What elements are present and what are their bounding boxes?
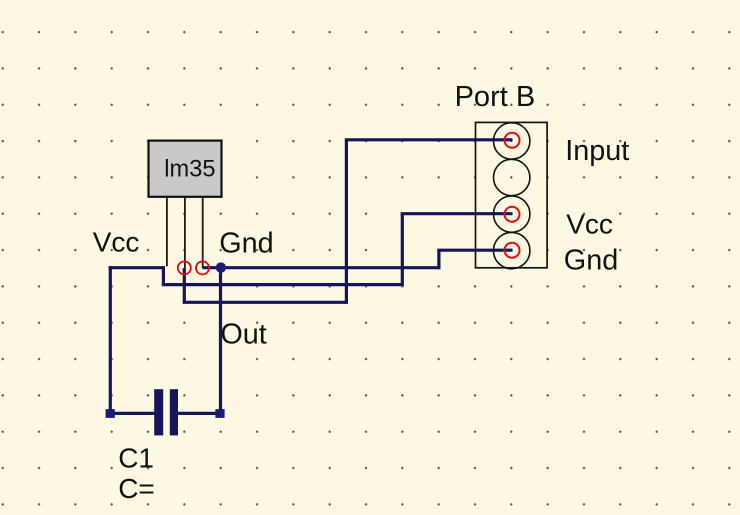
wire: horizontal from capacitor C1 right plate	[178, 412, 221, 415]
label: Vcc (left net)	[93, 227, 140, 258]
wire: Vcc net, long horizontal run y=284.6	[162, 283, 402, 286]
unconnected pin marker, pin 2	[178, 261, 191, 274]
label: Port B	[455, 81, 536, 113]
Port B hole 1 (Input)	[494, 123, 530, 159]
wire: Vcc net, vertical rise to port Vcc row	[401, 214, 404, 287]
wire: Vcc net, vertical stub below pin1	[162, 266, 165, 285]
capacitor C1 right plate	[170, 389, 178, 435]
pin marker, Port B Vcc pin	[505, 207, 520, 222]
wire: Out net, horizontal run y=302.3	[183, 301, 347, 304]
wire: Gnd net, pin3 to junction dot	[202, 266, 220, 269]
svg-text:Vcc: Vcc	[93, 227, 140, 258]
label: Input	[565, 135, 629, 167]
wire: Vcc net, vertical down to capacitor left	[109, 266, 112, 413]
svg-text:C1: C1	[118, 442, 154, 473]
wire: Out net, vertical rise to port Input row	[345, 140, 348, 304]
label: Out (net)	[220, 319, 266, 351]
capacitor C1 left plate	[154, 389, 163, 435]
Port B hole 2 (unused)	[494, 159, 530, 195]
wire: Gnd net, vertical rise to port Gnd row	[437, 250, 440, 269]
wire: Gnd net, horizontal run y=267.7 to riser	[221, 266, 439, 269]
wire: Gnd net, vertical down to capacitor right	[219, 268, 222, 414]
svg-text:Input: Input	[565, 135, 629, 167]
unconnected pin marker, pin 3	[196, 261, 209, 274]
Port B hole 4 (Gnd)	[494, 232, 530, 268]
label: Gnd (right)	[564, 244, 618, 276]
label: Gnd (middle net)	[219, 228, 273, 260]
svg-text:Gnd: Gnd	[564, 244, 618, 276]
LM35 body	[149, 141, 222, 197]
wire: Vcc net, horizontal into Port B Vcc pin	[401, 212, 513, 215]
wire: Gnd net, horizontal into Port B Gnd pin	[437, 249, 512, 252]
svg-text:C=: C=	[118, 473, 155, 504]
pin 3 of LM35 (Gnd)	[202, 197, 204, 268]
svg-text:Gnd: Gnd	[219, 228, 273, 260]
pin marker, Port B Input pin	[505, 133, 520, 148]
LM35 label	[164, 157, 215, 183]
pin 1 of LM35 (Vcc)	[166, 197, 168, 266]
junction dot, Gnd node	[216, 262, 226, 272]
pin marker, Port B Gnd pin	[505, 243, 520, 258]
wire: horizontal to capacitor C1 left plate	[110, 412, 154, 415]
svg-text:lm35: lm35	[164, 157, 215, 183]
Port B hole 3 (Vcc)	[494, 196, 530, 232]
label: C1 reference	[118, 442, 154, 473]
pin 2 of LM35 (Out)	[184, 197, 186, 268]
junction square, capacitor right terminal	[215, 409, 224, 418]
svg-text:Vcc: Vcc	[566, 209, 613, 240]
svg-text:Port B: Port B	[455, 81, 536, 113]
Port B connector body	[476, 122, 548, 267]
wire: Vcc net, horizontal from cap riser to below pin1	[109, 266, 165, 269]
label: C= value	[118, 473, 155, 504]
svg-text:Out: Out	[220, 319, 266, 351]
junction square, capacitor left terminal	[106, 409, 115, 418]
wire: Out net, horizontal into Port B Input pin	[345, 138, 513, 141]
label: Vcc (right)	[566, 209, 613, 240]
wire: Out net, vertical below pin2	[183, 268, 186, 302]
